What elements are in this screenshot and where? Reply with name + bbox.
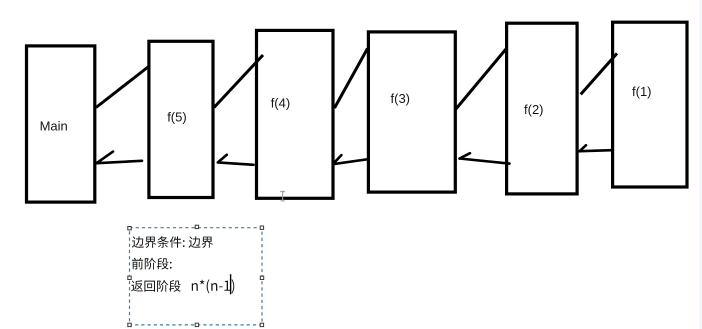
text caret (230, 274, 231, 294)
svg-text:f(4): f(4) (271, 96, 291, 111)
return arrow f(3) to f(4) (333, 155, 369, 164)
text line 2: 前阶段: (132, 258, 172, 270)
call arrow f(4) to f(3) (335, 49, 368, 109)
I-beam text cursor (280, 191, 285, 202)
selection handles (128, 225, 264, 326)
box f(4) (257, 30, 334, 198)
svg-text:Main: Main (40, 119, 68, 134)
svg-text:f(1): f(1) (632, 84, 652, 99)
box f(2) (507, 23, 577, 194)
call arrow f(2) to f(1) (581, 53, 617, 94)
return arrow f(4) to f(5) (218, 155, 254, 165)
call arrow f(5) to f(4) (214, 55, 263, 108)
svg-text:f(3): f(3) (391, 91, 411, 106)
selection box dashed border (130, 228, 263, 325)
text line 3a: 返回阶段 (131, 280, 181, 292)
box Main (27, 46, 95, 202)
screen right edge tint (699, 0, 702, 329)
return arrow f(1) to f(2) (580, 145, 612, 151)
text line 1: 边界条件: 边界 (132, 236, 213, 248)
box f(1) (613, 22, 687, 187)
box f(5) (149, 41, 213, 197)
box f(3) (368, 32, 455, 192)
return arrow f(2) to f(3) (460, 153, 510, 163)
return arrow f(5) to Main (97, 152, 143, 164)
svg-text:f(5): f(5) (167, 109, 187, 124)
call arrow f(3) to f(2) (456, 49, 507, 110)
call arrow Main to f(5) (96, 67, 148, 108)
svg-text:f(2): f(2) (524, 102, 544, 117)
text line 3b: n*(n-1) (192, 279, 235, 293)
